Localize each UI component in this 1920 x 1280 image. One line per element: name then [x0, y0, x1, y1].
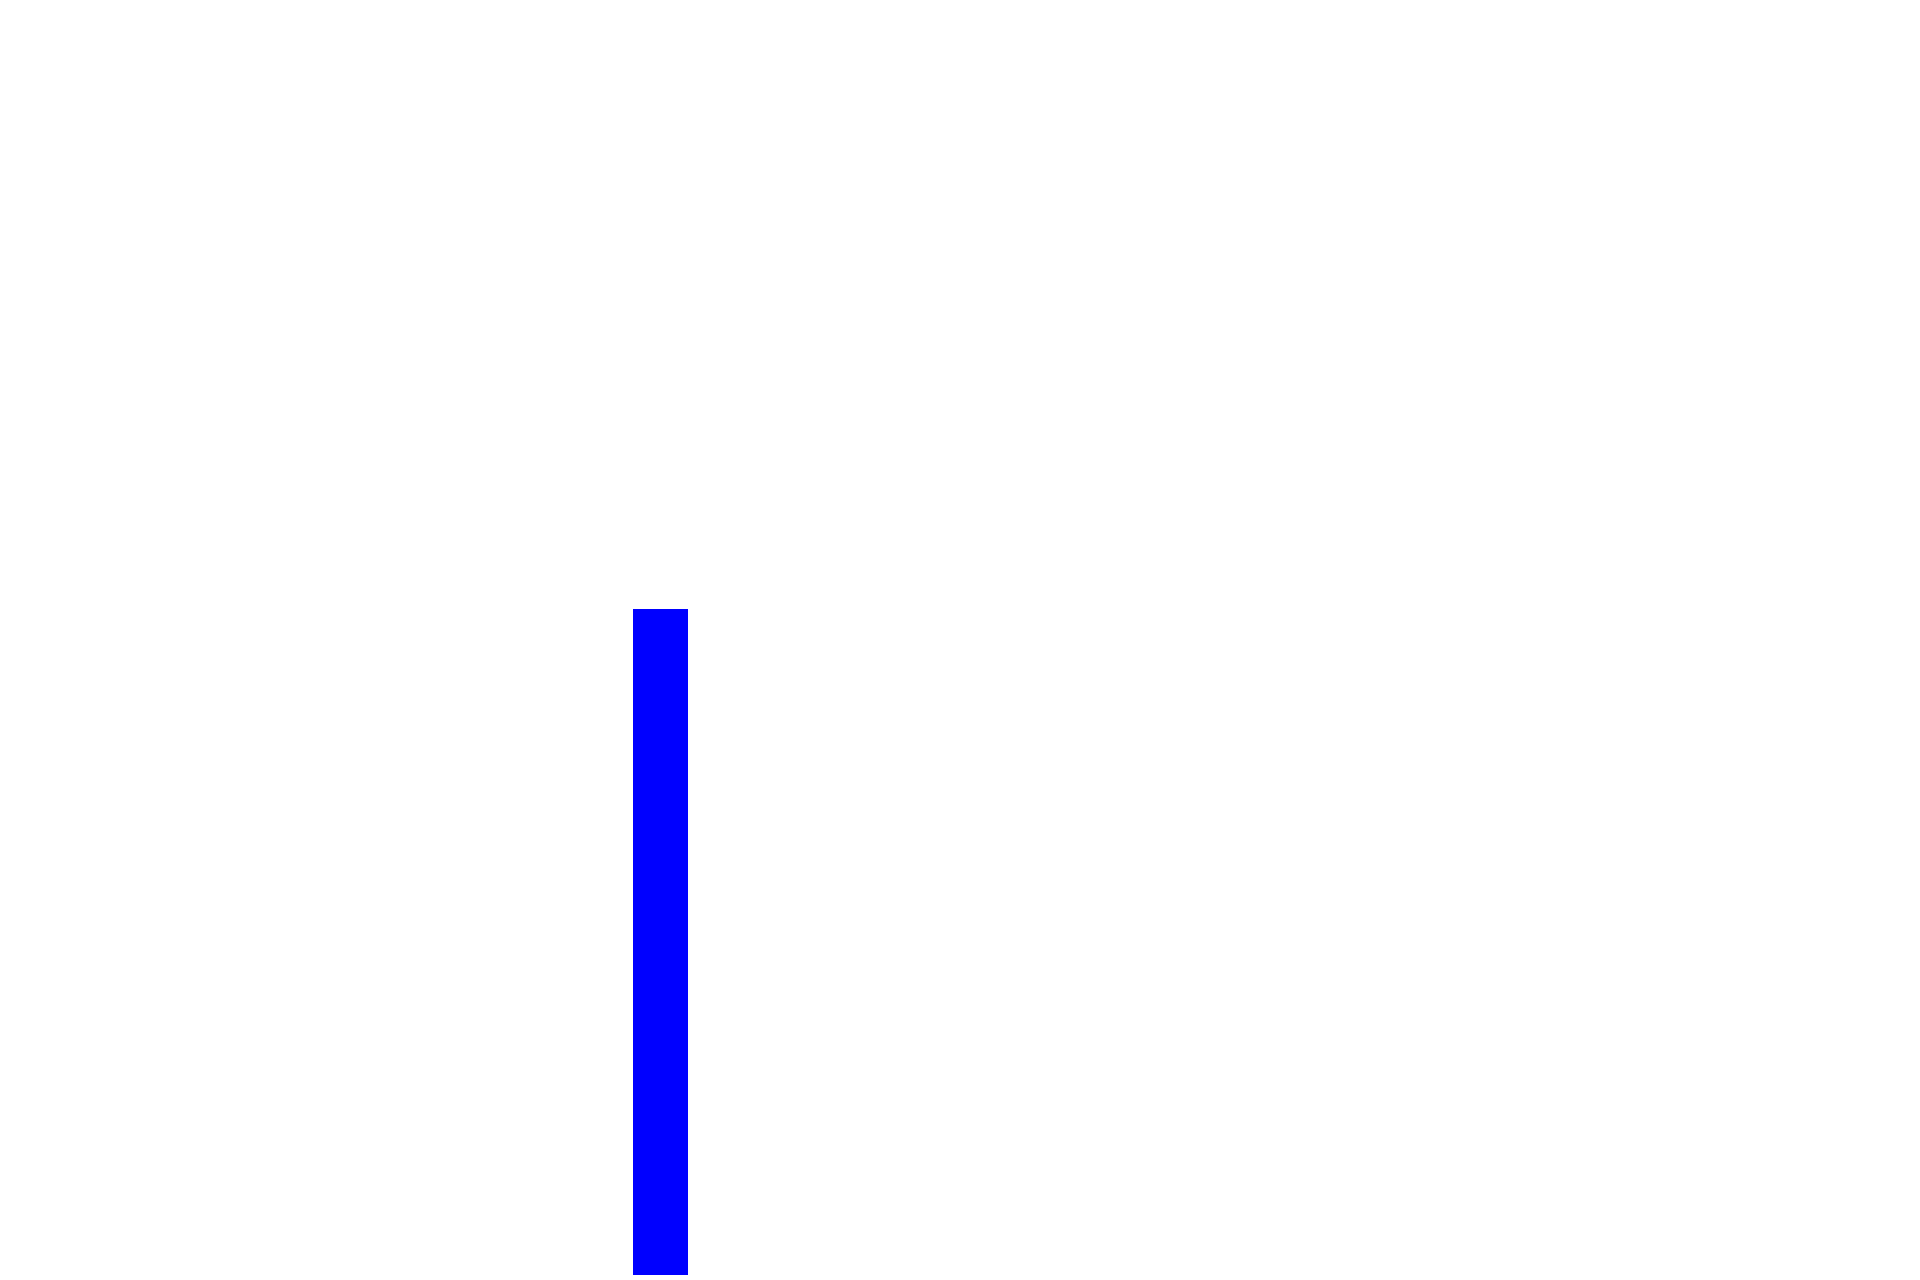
bar	[633, 609, 688, 1275]
